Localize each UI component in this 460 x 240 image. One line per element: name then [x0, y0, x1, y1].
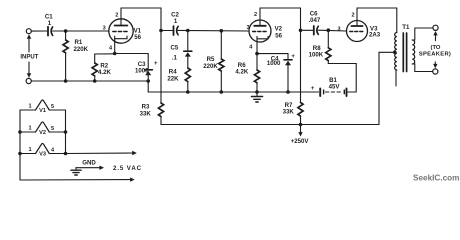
svg-text:SPEAKER): SPEAKER): [419, 52, 451, 58]
speaker terminal top: [433, 25, 438, 30]
wire V3 plate top run: [357, 8, 397, 33]
arrow GND: [76, 166, 104, 170]
capacitor C6: [314, 26, 319, 35]
node rail right V2: [64, 130, 68, 134]
svg-text:5: 5: [51, 126, 54, 132]
resistor R6: [254, 54, 259, 92]
node V1 cathode: [113, 52, 117, 56]
svg-text:3: 3: [337, 26, 340, 32]
node R1 bottom: [64, 79, 68, 83]
svg-text:C5: C5: [171, 44, 179, 51]
svg-text:R1: R1: [75, 39, 83, 46]
heater V1: [36, 100, 50, 110]
node R5 bottom: [220, 90, 224, 94]
svg-text:.1: .1: [172, 55, 178, 62]
heater V1 row wires: [20, 109, 66, 111]
transformer core: [403, 33, 406, 72]
wire cathode to R2: [95, 53, 115, 55]
wire C1 to V1 grid: [53, 30, 109, 32]
node R4 bottom: [186, 90, 190, 94]
wire V2 plate top run: [260, 8, 301, 30]
resistor R8: [326, 30, 331, 63]
svg-text:220K: 220K: [203, 63, 218, 70]
svg-text:2.5 VAC: 2.5 VAC: [113, 165, 142, 172]
wire secondary top lead: [412, 28, 433, 40]
node C4 bottom: [286, 90, 290, 94]
heater V3: [36, 144, 50, 154]
resistor R5: [219, 31, 224, 92]
svg-text:V3: V3: [39, 151, 46, 157]
arrow +250V: [298, 125, 302, 137]
svg-text:33K: 33K: [283, 109, 295, 116]
input arrows: [27, 34, 31, 78]
resistor R2: [92, 54, 97, 81]
heater left rail: [19, 110, 21, 180]
wire C6 row: [301, 29, 347, 32]
node plate1: [159, 29, 163, 33]
svg-text:56: 56: [275, 33, 282, 40]
capacitor C1: [48, 27, 53, 36]
wire plate2 down to R7: [300, 30, 302, 102]
transformer T1 secondary: [412, 40, 414, 64]
svg-text:5: 5: [51, 104, 54, 110]
node R6 bottom: [255, 90, 259, 94]
heater V2: [36, 122, 50, 132]
heater V3 row wires: [20, 153, 66, 155]
svg-text:INPUT: INPUT: [20, 54, 38, 60]
svg-text:4.2K: 4.2K: [235, 68, 248, 75]
svg-text:R5: R5: [207, 56, 215, 63]
wire input to C1: [31, 30, 47, 32]
svg-text:1: 1: [28, 126, 31, 132]
capacitor C2: [174, 26, 179, 35]
svg-text:1: 1: [28, 147, 31, 153]
node rail right V3: [64, 152, 68, 156]
svg-text:2: 2: [351, 12, 354, 18]
node C6 out: [327, 28, 331, 32]
resistor R4: [185, 68, 190, 92]
node plate2: [299, 29, 303, 33]
wire B+ rail: [161, 52, 395, 124]
resistor R3: [158, 103, 163, 125]
speaker arrows: [433, 31, 438, 68]
heater V2 row wires: [20, 131, 66, 133]
svg-text:220K: 220K: [74, 46, 89, 53]
heater right rail: [65, 110, 67, 154]
ground: [251, 92, 262, 102]
node rail left V3: [18, 152, 22, 156]
node R7 bottom: [299, 123, 303, 127]
svg-text:4.2K: 4.2K: [98, 69, 111, 76]
wire heater feed bottom: [20, 177, 135, 181]
wire cathode2 to C4: [257, 54, 288, 59]
battery B1: [320, 88, 346, 96]
transformer T1 primary: [395, 33, 397, 71]
svg-text:R3: R3: [142, 104, 150, 111]
node transformer tap: [393, 51, 397, 55]
svg-text:100K: 100K: [309, 51, 324, 58]
svg-text:R4: R4: [169, 69, 177, 76]
node R5 top: [220, 29, 224, 33]
node R2 bottom: [93, 79, 97, 83]
svg-text:+250V: +250V: [291, 138, 310, 145]
svg-text:33K: 33K: [140, 111, 152, 118]
svg-text:1: 1: [28, 104, 31, 110]
wire cathode to C3: [115, 54, 149, 69]
resistor R1: [63, 32, 68, 81]
svg-text:(TO: (TO: [431, 45, 441, 51]
svg-text:1000: 1000: [267, 60, 281, 67]
tube V1: [109, 8, 133, 54]
wire heater feed top: [66, 151, 137, 155]
wire C5 branch: [187, 31, 189, 51]
tube V2: [249, 8, 271, 54]
svg-text:2: 2: [254, 12, 257, 18]
wire R8 to battery: [328, 64, 356, 93]
wire C2 row: [161, 29, 249, 32]
svg-text:+: +: [154, 61, 158, 67]
svg-text:+: +: [291, 54, 295, 60]
svg-text:GND: GND: [82, 159, 96, 166]
wire bus jog: [147, 81, 149, 92]
svg-text:.047: .047: [308, 17, 320, 24]
capacitor C4: [284, 60, 292, 92]
svg-text:SeekIC.com: SeekIC.com: [413, 174, 459, 183]
wire ground bus right: [148, 91, 318, 93]
svg-text:+: +: [311, 86, 315, 92]
resistor R7: [298, 103, 303, 125]
node C3 bottom: [146, 79, 150, 83]
label TO SPEAKER: [419, 45, 451, 58]
svg-text:2: 2: [115, 12, 118, 18]
svg-text:1000: 1000: [135, 67, 149, 74]
input terminal top: [26, 29, 31, 34]
wire primary bottom lead: [395, 70, 397, 86]
svg-text:V2: V2: [275, 25, 283, 32]
svg-text:T1: T1: [402, 24, 410, 31]
capacitor C3: [145, 70, 153, 81]
svg-text:2A3: 2A3: [369, 32, 381, 39]
node R1 top: [64, 29, 68, 33]
node rail left V2: [18, 130, 22, 134]
wire plate node down to R3: [160, 31, 162, 104]
input terminal bottom: [26, 78, 31, 83]
svg-text:22K: 22K: [167, 76, 179, 83]
svg-text:V2: V2: [39, 130, 46, 136]
svg-text:3: 3: [103, 26, 106, 32]
capacitor C5: [184, 51, 192, 68]
svg-text:45V: 45V: [329, 84, 341, 91]
svg-text:56: 56: [134, 34, 141, 41]
wire ground bus left: [31, 80, 148, 82]
svg-text:V1: V1: [39, 108, 46, 114]
svg-text:3: 3: [246, 25, 249, 31]
ground heater: [71, 168, 81, 175]
node V2 cathode: [255, 52, 259, 56]
wire V1 plate top run: [121, 8, 161, 31]
wire secondary bottom lead: [412, 64, 432, 72]
tube V3: [347, 8, 368, 42]
node C5 top: [186, 29, 190, 33]
speaker terminal bottom: [433, 69, 438, 74]
